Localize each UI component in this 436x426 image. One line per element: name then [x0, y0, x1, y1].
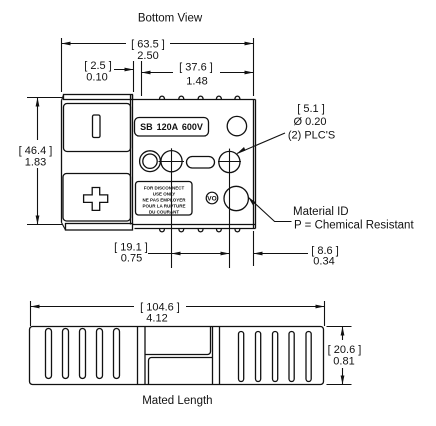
dim 46.4 vertical dimension: [19, 98, 62, 225]
centerline 1: [171, 148, 173, 268]
main body right edge double line: [253, 100, 255, 229]
housing top lip: [64, 95, 133, 100]
svg-text:USE ONLY: USE ONLY: [153, 191, 176, 196]
minus bar symbol: [93, 115, 101, 138]
svg-text:DU COURANT: DU COURANT: [149, 209, 179, 214]
extension line right of 63.5: [253, 38, 255, 96]
extension line 2.5 left: [133, 61, 135, 92]
svg-text:1.83: 1.83: [25, 157, 46, 169]
svg-text:Ø 0.20: Ø 0.20: [293, 116, 326, 128]
svg-text:0.75: 0.75: [121, 253, 142, 265]
upper tongue outline: [145, 327, 211, 355]
lower tongue outline: [149, 358, 213, 385]
crosshair circle 1: [161, 151, 182, 172]
right connector flange lines: [212, 327, 214, 385]
dim 20.6: [327, 327, 362, 385]
extension line right of 104.6: [324, 301, 326, 326]
crosshair circle 2: [219, 151, 240, 172]
housing block 2: [63, 174, 131, 222]
dim 37.6 dimension line: [142, 62, 254, 88]
main body top edge: [133, 99, 256, 101]
housing right edge double line: [130, 95, 132, 225]
left ribs: [46, 329, 120, 379]
dim 8.6: [254, 245, 339, 268]
dim 2.5 label and arrow: [84, 60, 133, 84]
top edge bumps: [160, 96, 240, 99]
plus symbol: [84, 188, 108, 211]
main body bottom edge: [133, 224, 256, 226]
double circle: [140, 151, 161, 172]
oval slot: [187, 157, 215, 169]
bottom edge bumps: [160, 229, 240, 232]
main body lower flange: [135, 228, 256, 230]
right ribs: [239, 332, 312, 382]
svg-text:VO: VO: [207, 196, 216, 203]
svg-text:4.12: 4.12: [146, 313, 167, 325]
svg-text:Material ID: Material ID: [293, 206, 349, 218]
dim 63.5 dimension line: [62, 39, 254, 63]
svg-text:[ 2.5 ]: [ 2.5 ]: [84, 60, 112, 72]
svg-text:Bottom View: Bottom View: [138, 13, 203, 25]
svg-text:0.34: 0.34: [313, 256, 334, 268]
dim 19.1: [114, 242, 229, 265]
warning text box: [136, 182, 193, 216]
svg-text:POUR LA RUPTURE: POUR LA RUPTURE: [142, 203, 185, 208]
housing bottom lip: [66, 224, 133, 231]
extension line right edge below body: [253, 231, 255, 266]
svg-text:NE PAS EMPLOYER: NE PAS EMPLOYER: [143, 197, 187, 202]
housing block 1: [64, 104, 131, 152]
SB 120A 600V label box: [135, 118, 209, 137]
svg-text:[ 5.1 ]: [ 5.1 ]: [297, 103, 325, 115]
svg-text:0.10: 0.10: [86, 72, 107, 84]
extension line left of 63.5: [61, 38, 63, 92]
centerline 2: [229, 149, 231, 268]
leader to material ID circle: [248, 197, 291, 221]
dim 104.6: [31, 302, 325, 325]
svg-text:[ 37.6 ]: [ 37.6 ]: [179, 62, 213, 74]
extension line left of 104.6: [30, 301, 32, 326]
leader to hole (2) PLC'S: [237, 133, 285, 154]
svg-text:(2) PLC'S: (2) PLC'S: [288, 130, 335, 142]
housing chamfer bottom-left: [62, 223, 66, 231]
housing left edge: [61, 101, 63, 223]
svg-text:0.81: 0.81: [333, 355, 354, 367]
svg-text:FOR DISCONNECT: FOR DISCONNECT: [144, 185, 185, 190]
svg-text:P = Chemical Resistant: P = Chemical Resistant: [294, 220, 414, 232]
svg-text:SB 120A 600V: SB 120A 600V: [140, 122, 203, 132]
svg-text:2.50: 2.50: [137, 50, 158, 62]
housing chamfer top-left: [62, 95, 64, 101]
svg-text:Mated Length: Mated Length: [142, 395, 212, 407]
svg-text:[ 46.4 ]: [ 46.4 ]: [19, 145, 53, 157]
svg-text:[ 20.6 ]: [ 20.6 ]: [328, 344, 362, 356]
top-right circle: [227, 116, 246, 135]
svg-text:[ 63.5 ]: [ 63.5 ]: [131, 39, 165, 51]
material ID circle: [224, 186, 248, 210]
svg-text:1.48: 1.48: [186, 76, 207, 88]
left connector flange lines: [137, 327, 139, 385]
mated body outline: [30, 327, 324, 385]
V0 flammability circle: [206, 192, 218, 204]
extension line 2.5 right: [141, 61, 143, 96]
